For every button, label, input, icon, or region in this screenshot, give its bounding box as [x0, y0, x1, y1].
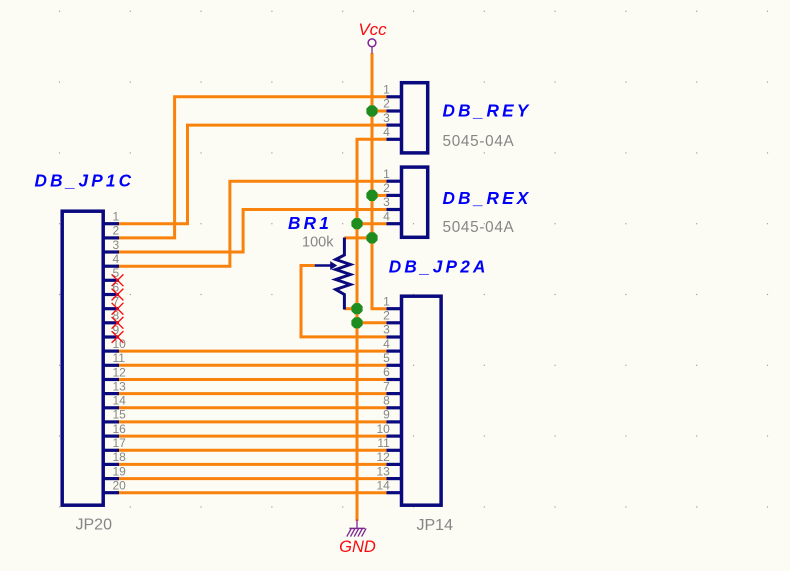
- pin 16 of JP1: [103, 422, 126, 436]
- pin 7 of JP2: [383, 379, 402, 393]
- wire JP1 pin15 to JP14 pin9: [116, 420, 387, 423]
- svg-text:2: 2: [383, 97, 390, 111]
- wire JP1 pin10 to JP14 pin4: [116, 350, 387, 353]
- svg-text:4: 4: [113, 252, 120, 266]
- no-connect X on JP1 pin 5: [112, 274, 124, 286]
- junction GND at DB_REX pin4: [351, 218, 362, 229]
- pin 4 of DB_REY: [383, 125, 402, 139]
- wire JP1 pin18 to JP14 pin12: [116, 463, 387, 466]
- pin 2 of JP2: [383, 309, 402, 323]
- wire Vcc vertical to JP14 pin1: [372, 53, 387, 309]
- svg-text:GND: GND: [339, 538, 376, 556]
- svg-text:11: 11: [113, 351, 126, 365]
- connector U2 DB_REX body (5045-04A): [402, 167, 428, 237]
- svg-text:5045-04A: 5045-04A: [443, 219, 515, 236]
- pin 5 of JP2: [383, 351, 402, 365]
- no-connect X on JP1 pin 7: [112, 303, 124, 315]
- junction GND at BR1 bottom: [351, 303, 362, 314]
- svg-text:DB_REX: DB_REX: [443, 188, 532, 208]
- svg-text:4: 4: [383, 337, 390, 351]
- pin 14 of JP1: [103, 394, 126, 408]
- pin 5 of JP1: [103, 266, 120, 280]
- svg-text:11: 11: [377, 436, 390, 450]
- svg-text:5: 5: [383, 351, 390, 365]
- pin 20 of JP1: [103, 479, 126, 493]
- wire JP1 pin4 to DB_REX pin1: [116, 181, 387, 266]
- svg-text:14: 14: [113, 394, 127, 408]
- pin 7 of JP1: [103, 295, 120, 309]
- wire JP1 pin2 to DB_REY pin1: [116, 97, 387, 238]
- connector JP1 DB_JP1C body (JP20): [62, 211, 103, 505]
- pin 1 of DB_REX: [383, 167, 402, 181]
- pin 15 of JP1: [103, 408, 126, 422]
- wire GND line to JP14 pin2: [357, 321, 387, 324]
- svg-text:1: 1: [383, 167, 390, 181]
- svg-text:13: 13: [376, 464, 390, 478]
- pin 2 of DB_REY: [383, 97, 402, 111]
- wire DB_REY pin4 down to GND: [357, 139, 387, 521]
- svg-text:3: 3: [113, 238, 120, 252]
- svg-text:2: 2: [383, 309, 390, 323]
- pin 9 of JP1: [103, 323, 120, 337]
- wire GND to DB_REX pin4: [357, 222, 387, 225]
- pin 1 of JP1: [103, 210, 120, 224]
- junction GND at JP14 pin2: [351, 317, 362, 328]
- pin 1 of DB_REY: [383, 83, 402, 97]
- pin 12 of JP1: [103, 365, 126, 379]
- no-connect X on JP1 pin 9: [112, 331, 124, 343]
- pin 8 of JP1: [103, 309, 120, 323]
- pin 12 of JP2: [376, 450, 402, 464]
- svg-text:JP14: JP14: [417, 517, 454, 534]
- wire JP1 pin12 to JP14 pin6: [116, 378, 387, 381]
- svg-text:DB_JP1C: DB_JP1C: [35, 170, 135, 190]
- pin 14 of JP2: [376, 478, 402, 492]
- svg-text:6: 6: [383, 365, 390, 379]
- pin 10 of JP1: [103, 337, 126, 351]
- svg-text:18: 18: [113, 450, 127, 464]
- power symbol GND (earth): [339, 520, 376, 557]
- no-connect X on JP1 pin 6: [112, 289, 124, 301]
- svg-text:13: 13: [113, 379, 127, 393]
- pin 1 of JP2: [383, 294, 402, 308]
- connector U1 DB_REY body (5045-04A): [402, 83, 428, 153]
- svg-text:4: 4: [383, 125, 390, 139]
- svg-text:3: 3: [383, 323, 390, 337]
- junction Vcc at DB_REY pin2: [366, 105, 377, 116]
- pin 6 of JP1: [103, 280, 120, 294]
- svg-text:DB_REY: DB_REY: [443, 100, 532, 120]
- svg-text:1: 1: [383, 294, 390, 308]
- no-connect X on JP1 pin 8: [112, 317, 124, 329]
- connector JP2 DB_JP2A body (JP14): [402, 296, 442, 505]
- pin 9 of JP2: [383, 408, 402, 422]
- junction Vcc at DB_REX pin2: [366, 190, 377, 201]
- svg-text:Vcc: Vcc: [358, 20, 387, 39]
- svg-text:BR1: BR1: [288, 213, 332, 233]
- junction Vcc at BR1 top: [366, 232, 377, 243]
- wire JP1 pin13 to JP14 pin7: [116, 392, 387, 395]
- resistor BR1 (potentiometer, 100k): [315, 238, 351, 310]
- svg-text:2: 2: [383, 181, 390, 195]
- svg-text:5045-04A: 5045-04A: [443, 133, 515, 150]
- pin 13 of JP2: [376, 464, 402, 478]
- svg-text:15: 15: [113, 408, 127, 422]
- svg-text:8: 8: [383, 394, 390, 408]
- pin 4 of JP2: [383, 337, 402, 351]
- pin 3 of JP2: [383, 323, 402, 337]
- svg-text:14: 14: [376, 478, 390, 492]
- svg-text:7: 7: [383, 379, 390, 393]
- svg-text:3: 3: [383, 111, 390, 125]
- wire JP1 pin1 to DB_REY pin3: [116, 125, 387, 224]
- wire JP1 pin11 to JP14 pin5: [116, 364, 387, 367]
- svg-text:19: 19: [113, 464, 127, 478]
- pin 2 of JP1: [103, 224, 120, 238]
- svg-text:DB_JP2A: DB_JP2A: [389, 256, 489, 276]
- svg-text:1: 1: [383, 83, 390, 97]
- svg-text:10: 10: [376, 422, 390, 436]
- wire JP1 pin3 to DB_REX pin3: [116, 210, 387, 253]
- pin 18 of JP1: [103, 450, 126, 464]
- pin 3 of JP1: [103, 238, 120, 252]
- wire JP1 pin14 to JP14 pin8: [116, 406, 387, 409]
- svg-text:100k: 100k: [302, 235, 334, 251]
- wire Vcc to DB_REX pin2: [372, 194, 387, 197]
- pin 3 of DB_REY: [383, 111, 402, 125]
- svg-text:4: 4: [383, 209, 390, 223]
- wire BR1 top to Vcc: [344, 236, 372, 239]
- pin 4 of DB_REX: [383, 209, 402, 223]
- wire Vcc to DB_REY pin2: [372, 110, 387, 113]
- svg-text:17: 17: [113, 436, 127, 450]
- svg-text:12: 12: [376, 450, 390, 464]
- pin 3 of DB_REX: [383, 195, 402, 209]
- wire JP1 pin20 to JP14 pin14: [116, 491, 387, 494]
- pin 8 of JP2: [383, 394, 402, 408]
- svg-text:12: 12: [113, 365, 127, 379]
- pin 19 of JP1: [103, 464, 126, 478]
- pin 4 of JP1: [103, 252, 120, 266]
- svg-text:16: 16: [113, 422, 127, 436]
- svg-text:2: 2: [113, 224, 120, 238]
- pin 11 of JP2: [377, 436, 402, 450]
- wire BR1 bottom to GND line: [344, 307, 357, 310]
- pin 2 of DB_REX: [383, 181, 402, 195]
- pin 11 of JP1: [103, 351, 125, 365]
- svg-text:3: 3: [383, 195, 390, 209]
- svg-text:9: 9: [383, 408, 390, 422]
- svg-text:20: 20: [113, 479, 127, 493]
- pin 10 of JP2: [376, 422, 402, 436]
- pin 6 of JP2: [383, 365, 402, 379]
- wire BR1 wiper to JP14 pin3: [301, 266, 387, 337]
- wire JP1 pin16 to JP14 pin10: [116, 435, 387, 438]
- svg-text:1: 1: [113, 210, 120, 224]
- power symbol Vcc: [358, 20, 387, 54]
- svg-text:JP20: JP20: [76, 517, 113, 534]
- pin 13 of JP1: [103, 379, 126, 393]
- wire JP1 pin19 to JP14 pin13: [116, 477, 387, 480]
- pin 17 of JP1: [103, 436, 126, 450]
- wire JP1 pin17 to JP14 pin11: [116, 449, 387, 452]
